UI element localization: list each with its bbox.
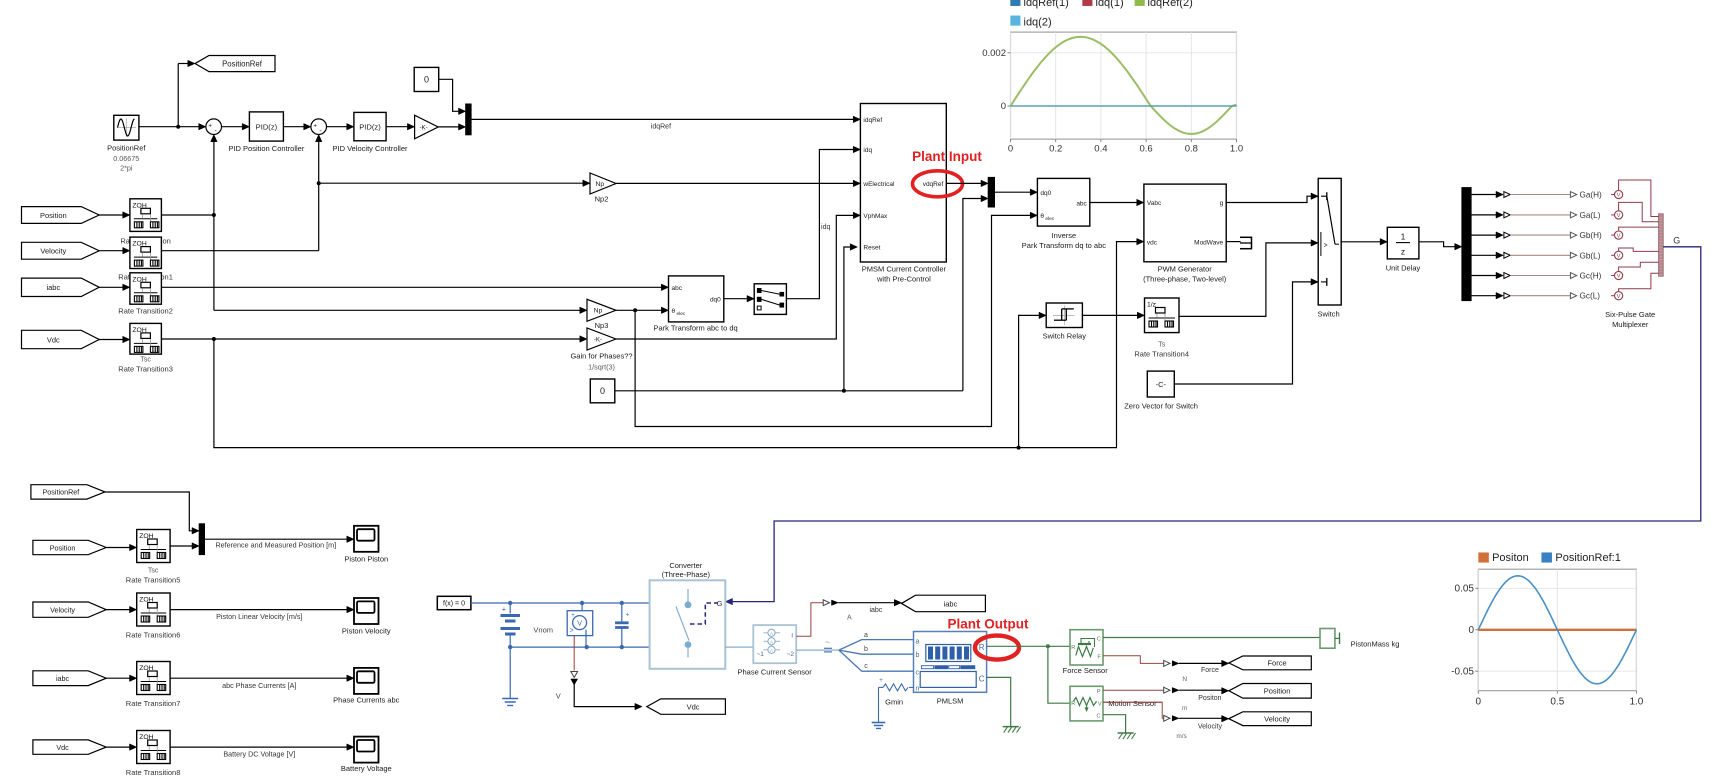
svg-text:wElectrical: wElectrical — [862, 181, 895, 188]
svg-text:idq(1): idq(1) — [1096, 0, 1124, 9]
svg-text:m/s: m/s — [1176, 733, 1187, 740]
svg-text:Velocity: Velocity — [40, 247, 66, 256]
svg-text:idqRef: idqRef — [863, 117, 882, 124]
label A unit — [847, 615, 852, 622]
svg-text:Velocity: Velocity — [1198, 724, 1223, 731]
from tag PositionRef (bottom) — [31, 485, 105, 499]
svg-text:1.0: 1.0 — [1629, 697, 1643, 708]
scope legend row2 — [1011, 16, 1052, 28]
annotation Plant Input — [912, 149, 982, 164]
svg-text:R: R — [979, 643, 985, 652]
label Rate Transition6 — [126, 631, 181, 640]
wire mux2 to InversePark dq0 — [995, 189, 1038, 195]
from tag Vdc (bottom) — [33, 740, 106, 754]
wire sum1 to PID1 — [222, 123, 250, 129]
svg-text:0: 0 — [600, 386, 605, 396]
scope x tick labels — [1008, 144, 1243, 155]
svg-text:N: N — [1182, 676, 1187, 683]
wire PMLSM R to sensors — [987, 644, 1070, 703]
svg-text:V: V — [1617, 294, 1621, 300]
label Reference and Measured Position — [215, 540, 336, 549]
label Np2 — [595, 195, 609, 204]
wire Vdc tag to RT3 — [99, 336, 130, 342]
svg-text:0: 0 — [424, 75, 429, 85]
svg-text:iabc: iabc — [869, 607, 882, 614]
wire Np3 to Park theta and feedback — [616, 212, 1038, 426]
block PID Velocity Controller — [354, 112, 386, 140]
label PID Position Controller — [228, 144, 304, 153]
svg-text:V: V — [1098, 701, 1102, 707]
label Piston Velocity — [342, 627, 391, 636]
svg-text:b: b — [916, 652, 920, 659]
svg-text:Piston Velocity: Piston Velocity — [342, 627, 391, 636]
svg-text:idq: idq — [821, 224, 830, 231]
wire Position tag to RT — [99, 212, 130, 218]
wire sensor output V — [571, 636, 642, 710]
wire RT4 to Switch input2 — [1179, 240, 1318, 317]
svg-text:idq: idq — [863, 147, 872, 154]
solver block f(x)=0 — [437, 596, 471, 609]
scope block Piston Velocity — [354, 598, 379, 624]
svg-text:g: g — [1220, 200, 1224, 207]
label abc Phase Currents — [222, 681, 296, 690]
from tag Position — [22, 207, 100, 224]
wire const0 to Reset and mux2 — [615, 195, 988, 393]
svg-text:PID Velocity Controller: PID Velocity Controller — [332, 144, 408, 153]
svg-text:PositionRef:1: PositionRef:1 — [1555, 552, 1620, 564]
label PWM Generator — [1143, 265, 1227, 284]
curve Positon orange — [1478, 629, 1636, 631]
svg-text:Ga(H): Ga(H) — [1580, 191, 1603, 200]
mux idqRef — [466, 104, 471, 135]
svg-text:Piston Linear Velocity [m/s]: Piston Linear Velocity [m/s] — [216, 612, 302, 621]
svg-text:abc: abc — [1076, 200, 1087, 207]
wire V source 6 to multiplexer bar — [1611, 273, 1659, 300]
svg-text:Gmin: Gmin — [885, 697, 903, 706]
wire converter to phase sensor — [725, 646, 753, 648]
block Phase Current Sensor — [753, 625, 796, 663]
wire gate signal Gc(L) — [1471, 292, 1577, 298]
wire G navy feedback to converter — [725, 247, 1701, 605]
svg-text:Rate Transition4: Rate Transition4 — [1134, 350, 1189, 359]
label iabc small — [869, 607, 882, 614]
annotation Plant Output — [948, 617, 1029, 632]
label Rate Transition7 — [126, 699, 181, 708]
svg-text:Unit Delay: Unit Delay — [1386, 264, 1421, 273]
wire vdqRef to mux2 — [946, 180, 988, 186]
wire Force Sensor C to PistonMass — [1103, 637, 1320, 639]
label Battery DC Voltage — [223, 750, 295, 759]
block PMSM Current Controller — [860, 104, 946, 263]
label Rate Transition8 — [126, 768, 181, 777]
wire selector to PMSM idq — [786, 146, 860, 298]
svg-text:2*pi: 2*pi — [120, 164, 133, 173]
svg-text:C: C — [979, 675, 985, 684]
curve idqRef(2) green — [1011, 37, 1237, 134]
wire Np2 to wElectrical — [616, 180, 860, 186]
svg-text:PositionRef: PositionRef — [43, 488, 80, 497]
svg-text:V: V — [1617, 274, 1621, 280]
svg-text:Position: Position — [50, 543, 76, 552]
svg-text:Rate Transition3: Rate Transition3 — [118, 365, 173, 374]
svg-text:~: ~ — [825, 638, 830, 647]
svg-text:V: V — [577, 619, 582, 628]
wire Velocity to RT6 — [106, 606, 137, 612]
svg-text:R: R — [1071, 645, 1075, 651]
label Piston Piston — [344, 555, 388, 564]
svg-text:Converter: Converter — [669, 561, 702, 570]
wire mux to Piston Piston scope — [205, 536, 355, 542]
wire gate signal Ga(H) — [1471, 191, 1577, 197]
label G output — [1673, 236, 1680, 246]
wire RT6 to Piston Velocity scope — [170, 606, 354, 612]
svg-text:C: C — [1097, 714, 1101, 720]
svg-text:0.5: 0.5 — [1550, 697, 1564, 708]
label idqRef wire — [651, 123, 671, 130]
svg-text:Zero Vector for Switch: Zero Vector for Switch — [1124, 402, 1198, 411]
svg-text:PositionRef: PositionRef — [107, 144, 146, 153]
svg-text:Reference and Measured Positio: Reference and Measured Position [m] — [215, 540, 336, 549]
selector block — [754, 284, 786, 315]
svg-text:Vdc: Vdc — [47, 335, 60, 344]
svg-text:A: A — [770, 631, 773, 636]
svg-text:0.6: 0.6 — [1139, 144, 1152, 155]
svg-text:Piston Piston: Piston Piston — [344, 555, 388, 564]
svg-text:Phase Current Sensor: Phase Current Sensor — [737, 667, 812, 676]
wire Switch to Unit Delay — [1341, 239, 1387, 245]
svg-text:elec: elec — [1045, 216, 1054, 222]
svg-text:Motion Sensor: Motion Sensor — [1108, 699, 1157, 708]
block Inverse Park Transform dq to abc — [1037, 178, 1089, 226]
svg-text:1/sqrt(3): 1/sqrt(3) — [588, 363, 615, 372]
wire gainPhases to VphMax — [616, 212, 861, 339]
svg-text:+: + — [879, 678, 883, 684]
svg-text:Ts: Ts — [1158, 342, 1166, 349]
svg-text:Rate Transition5: Rate Transition5 — [126, 576, 181, 585]
label gate Gc(H) — [1580, 272, 1602, 281]
wire RT7 to Phase Currents scope — [170, 675, 354, 681]
scope plot idq axes — [1008, 32, 1237, 142]
scope position axes — [1475, 569, 1636, 694]
svg-text:Rate Transition7: Rate Transition7 — [126, 699, 181, 708]
svg-text:Np2: Np2 — [595, 195, 609, 204]
svg-text:a: a — [916, 638, 920, 645]
from tag Velocity — [22, 242, 100, 259]
from tag Position (bottom) — [33, 540, 106, 554]
wire battery to ground — [509, 647, 511, 698]
svg-text:Position: Position — [40, 211, 67, 220]
gain Np2 — [590, 173, 616, 194]
block Rate Transition6 — [137, 593, 170, 626]
svg-text:Gc(H): Gc(H) — [1580, 272, 1602, 281]
svg-text:~1: ~1 — [757, 651, 765, 658]
svg-text:Force Sensor: Force Sensor — [1063, 666, 1109, 675]
svg-text:abc Phase Currents [A]: abc Phase Currents [A] — [222, 681, 296, 690]
svg-text:PositionRef: PositionRef — [222, 59, 263, 68]
wire RT2 iabc to Park abc — [161, 284, 668, 290]
svg-text:abc: abc — [672, 285, 683, 292]
svg-text:Rate Transition2: Rate Transition2 — [118, 307, 173, 316]
label Rate Transition — [120, 237, 170, 246]
svg-text:idq(2): idq(2) — [1024, 16, 1052, 28]
block Rate Transition1 (Velocity) — [130, 237, 162, 268]
wire V source 5 to multiplexer bar — [1611, 262, 1659, 279]
svg-text:iabc: iabc — [944, 599, 958, 608]
svg-text:Positon: Positon — [1198, 695, 1221, 702]
scope legend row1 — [1011, 0, 1193, 9]
block Motion Sensor — [1070, 686, 1103, 721]
block Unit Delay — [1387, 227, 1419, 259]
svg-text:V: V — [1617, 233, 1621, 239]
svg-text:Positon: Positon — [1492, 552, 1529, 564]
svg-text:Park Transform abc to dq: Park Transform abc to dq — [653, 324, 737, 333]
wire Motion Sensor C to ground — [1103, 715, 1126, 733]
svg-text:Battery DC Voltage [V]: Battery DC Voltage [V] — [223, 750, 295, 759]
svg-text:Switch: Switch — [1318, 310, 1340, 319]
label Force small — [1201, 667, 1219, 674]
svg-text:θ: θ — [672, 308, 676, 315]
wire ModWave to terminator — [1226, 241, 1240, 243]
svg-text:A: A — [770, 639, 773, 644]
capacitor — [615, 603, 630, 647]
svg-text:G: G — [717, 599, 723, 608]
svg-text:+: + — [313, 123, 317, 130]
from tag Velocity (bottom) — [33, 602, 106, 617]
wire gate signal Gc(H) — [1471, 272, 1577, 278]
svg-text:Inverse: Inverse — [1052, 231, 1077, 240]
wire Force Sensor F to Force tag — [1103, 656, 1229, 667]
constant block 0 (lower) — [590, 379, 615, 403]
wire gate signal Ga(L) — [1471, 212, 1577, 218]
scope position y labels — [1451, 584, 1474, 678]
svg-text:V: V — [1617, 193, 1621, 199]
wire solver to rail — [471, 602, 510, 604]
scope block Piston Piston — [354, 526, 379, 552]
ground Gmin — [872, 723, 886, 729]
svg-text:>: > — [1323, 242, 1327, 249]
label PistonMass kg — [1351, 640, 1400, 649]
label PMSM Current Controller — [862, 265, 947, 284]
label gate Ga(L) — [1580, 211, 1601, 220]
gain Gain for Phases (-K-) — [587, 328, 616, 350]
labels a b c — [864, 632, 868, 670]
block Rate Transition5 — [137, 530, 170, 563]
svg-text:Velocity: Velocity — [50, 605, 75, 614]
wire PID1 to sum2 — [283, 123, 311, 129]
svg-text:0.002: 0.002 — [982, 48, 1006, 59]
goto tag Force — [1229, 656, 1312, 670]
wire PWM g to Switch — [1226, 193, 1318, 203]
svg-text:idqRef: idqRef — [651, 123, 671, 130]
block Park Transform abc to dq — [669, 276, 724, 322]
wire RT3 Vdc to gain and feedback — [161, 238, 1144, 449]
label Velocity small — [1198, 724, 1223, 731]
gain Np3 — [587, 299, 616, 321]
block Converter Three-Phase — [650, 580, 726, 669]
svg-text:PID(z): PID(z) — [256, 122, 278, 131]
svg-text:Force: Force — [1267, 659, 1286, 668]
wire RT8 to Battery Voltage scope — [170, 744, 354, 750]
label PMLSM — [937, 697, 964, 706]
svg-text:Vdc: Vdc — [56, 743, 69, 752]
resistor Gmin — [879, 678, 914, 723]
label V — [556, 692, 561, 701]
svg-text:PID Position Controller: PID Position Controller — [228, 144, 304, 153]
svg-text:b: b — [864, 646, 868, 653]
wire const0 to mux — [439, 79, 466, 114]
svg-text:Vnom: Vnom — [533, 626, 553, 635]
label gate Gb(L) — [1580, 251, 1601, 260]
svg-text:iabc: iabc — [46, 283, 60, 292]
wire iabc tag to RT2 — [99, 284, 130, 290]
label Gmin — [885, 697, 903, 706]
svg-text:V: V — [556, 692, 561, 701]
svg-text:Np3: Np3 — [595, 321, 609, 330]
wire Velocity tag to RT1 — [99, 247, 130, 253]
svg-text:~2: ~2 — [787, 651, 795, 658]
wire sensor to PMLSM fan — [796, 638, 913, 671]
svg-text:-0.05: -0.05 — [1451, 666, 1474, 677]
label PositionRef source — [107, 144, 146, 173]
wire Vdc to RT8 — [106, 744, 137, 750]
svg-text:Position: Position — [1264, 687, 1291, 696]
label Vnom — [533, 626, 553, 635]
svg-text:m: m — [1182, 705, 1187, 712]
label Zero Vector for Switch — [1124, 402, 1198, 411]
svg-text:dq0: dq0 — [710, 296, 721, 303]
label gate Gb(H) — [1580, 231, 1603, 240]
svg-text:PMSM Current Controller: PMSM Current Controller — [862, 265, 947, 274]
svg-text:Force: Force — [1201, 667, 1219, 674]
svg-text:G: G — [1673, 236, 1680, 246]
wire mux to PMSM idqRef — [471, 116, 860, 122]
label Motion Sensor strikethrough — [1108, 699, 1157, 708]
svg-text:PWM Generator: PWM Generator — [1158, 265, 1213, 274]
wire sine to sum1 with branch to goto — [139, 60, 206, 130]
svg-text:0: 0 — [1476, 697, 1482, 708]
label Piston Linear Velocity — [216, 612, 302, 621]
label PID Velocity Controller — [332, 144, 408, 153]
demux gate signals — [1462, 188, 1471, 301]
svg-text:R: R — [1071, 701, 1075, 707]
svg-text:+: + — [571, 613, 575, 619]
svg-text:Gc(L): Gc(L) — [1580, 292, 1601, 301]
wire RT Position to sum1 and Np3 — [161, 135, 587, 314]
battery Vnom — [501, 603, 521, 647]
svg-text:idqRef(1): idqRef(1) — [1024, 0, 1069, 9]
terminator ModWave — [1240, 237, 1252, 250]
svg-text:Battery Voltage: Battery Voltage — [341, 764, 392, 773]
svg-text:Switch Relay: Switch Relay — [1043, 332, 1087, 341]
svg-text:ModWave: ModWave — [1194, 239, 1223, 246]
label m/s unit — [1176, 733, 1187, 740]
svg-text:0: 0 — [1001, 101, 1006, 112]
svg-text:+: + — [208, 123, 212, 130]
svg-text:Np: Np — [594, 308, 603, 315]
block PistonMass — [1320, 629, 1340, 649]
wire iabc to RT7 — [106, 675, 137, 681]
six-pulse gate multiplexer bar — [1659, 214, 1664, 276]
svg-text:Ga(L): Ga(L) — [1580, 211, 1601, 220]
block Rate Transition2 (iabc) — [130, 273, 162, 304]
block Rate Transition3 (Vdc) — [130, 323, 162, 354]
svg-text:I: I — [791, 633, 793, 640]
label Phase Currents abc — [333, 696, 400, 705]
voltage sensor Vnom — [567, 603, 593, 647]
curve PositionRef blue — [1478, 576, 1636, 684]
svg-text:V: V — [1617, 213, 1621, 219]
wire Unit Delay to demux — [1419, 242, 1462, 250]
svg-text:iabc: iabc — [56, 674, 70, 683]
svg-text:idqRef(2): idqRef(2) — [1148, 0, 1193, 9]
svg-text:with Pre-Control: with Pre-Control — [876, 275, 931, 284]
label Six-Pulse Gate Multiplexer — [1605, 310, 1655, 329]
wire RT1 Velocity to sum2 and Np2 — [161, 135, 590, 251]
svg-text:A: A — [770, 648, 773, 653]
wire top rail — [508, 601, 658, 608]
label Park Transform abc to dq — [653, 324, 737, 333]
svg-text:Park Transform dq to abc: Park Transform dq to abc — [1022, 241, 1106, 250]
svg-text:θ: θ — [1040, 213, 1044, 220]
svg-text:(Three-phase, Two-level): (Three-phase, Two-level) — [1143, 275, 1227, 284]
block Switch — [1318, 178, 1341, 305]
svg-text:Plant Output: Plant Output — [948, 617, 1029, 632]
svg-text:0: 0 — [1008, 144, 1013, 155]
svg-text:elec: elec — [677, 311, 686, 317]
constant Zero Vector for Switch — [1147, 371, 1174, 397]
wire gain to mux — [438, 124, 466, 130]
ground PMLSM C — [1003, 727, 1021, 733]
svg-text:0.06675: 0.06675 — [113, 154, 139, 163]
label Battery Voltage — [341, 764, 392, 773]
sum junction Sum2 — [311, 119, 327, 135]
svg-text:0.8: 0.8 — [1185, 144, 1198, 155]
svg-text:dq0: dq0 — [1040, 190, 1051, 197]
annotation red ellipse Plant Input — [913, 171, 963, 197]
wire sum2 to PID2 — [327, 123, 354, 129]
from tag iabc (bottom) — [33, 671, 106, 686]
label Tsc Rate Transition3 — [118, 357, 173, 374]
svg-text:Phase Currents abc: Phase Currents abc — [333, 696, 400, 705]
label gate Gc(L) — [1580, 292, 1601, 301]
block Rate Transition8 — [137, 731, 170, 764]
svg-text:Gb(H): Gb(H) — [1580, 231, 1603, 240]
block PMLSM — [914, 632, 987, 693]
svg-text:Tsc: Tsc — [148, 568, 159, 575]
label Gain for Phases — [570, 352, 632, 372]
label Positon small — [1198, 695, 1221, 702]
svg-text:0.4: 0.4 — [1094, 144, 1107, 155]
label Np3 — [595, 321, 609, 330]
svg-text:n: n — [916, 686, 920, 693]
source block PositionRef (sine wave) — [114, 115, 139, 140]
label N unit — [1182, 676, 1187, 683]
gain block -K- velocity — [415, 115, 439, 139]
svg-text:V: V — [1617, 254, 1621, 260]
svg-text:Gb(L): Gb(L) — [1580, 251, 1601, 260]
svg-text:vdc: vdc — [1147, 239, 1158, 246]
scope position legend — [1479, 552, 1621, 564]
svg-text:(Three-Phase): (Three-Phase) — [662, 570, 711, 579]
label Tsc Rate Transition5 — [126, 568, 181, 585]
sum junction Sum1 — [206, 119, 222, 135]
wire V source 2 to multiplexer bar — [1611, 202, 1659, 221]
svg-text:-C-: -C- — [1156, 380, 1167, 389]
wire bottom rail — [508, 645, 650, 649]
scope block Battery Voltage — [354, 737, 379, 763]
label Force Sensor — [1063, 666, 1109, 675]
wire PositionRef tag to mux — [105, 492, 199, 534]
